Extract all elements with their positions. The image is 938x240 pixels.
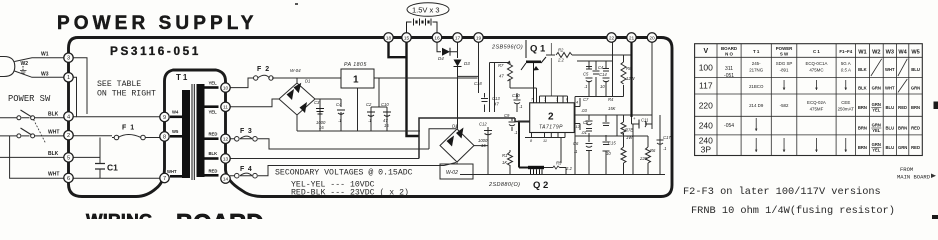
svg-text:C18: C18	[474, 81, 482, 86]
svg-text:16: 16	[319, 125, 324, 130]
svg-text:5G A: 5G A	[841, 61, 851, 66]
svg-text:TA7179P: TA7179P	[539, 125, 563, 131]
svg-text:BLU: BLU	[911, 67, 920, 72]
svg-text:475MC: 475MC	[809, 68, 823, 73]
svg-text:1.5V x 3: 1.5V x 3	[412, 6, 440, 15]
svg-text:YEL: YEL	[209, 81, 218, 86]
svg-text:.1: .1	[338, 118, 342, 123]
svg-text:13: 13	[223, 156, 229, 162]
svg-text:BRN: BRN	[858, 125, 867, 130]
svg-text:R6: R6	[650, 148, 656, 153]
svg-text:GRN: GRN	[872, 123, 881, 128]
svg-text:-891: -891	[780, 68, 789, 73]
svg-text:16: 16	[481, 143, 486, 148]
svg-text:YEL: YEL	[872, 148, 881, 153]
svg-text:C17: C17	[663, 135, 671, 140]
svg-text:ECQ-02A: ECQ-02A	[807, 100, 826, 105]
svg-text:SECONDARY VOLTAGES @ 0.15ADC: SECONDARY VOLTAGES @ 0.15ADC	[275, 168, 413, 178]
svg-text:-051: -051	[724, 73, 734, 79]
svg-text:5: 5	[67, 155, 70, 161]
svg-text:C 1: C 1	[813, 49, 820, 54]
svg-text:Q 1: Q 1	[530, 44, 546, 55]
svg-text:16: 16	[384, 123, 389, 128]
svg-text:WHT: WHT	[167, 169, 177, 174]
svg-text:7: 7	[163, 176, 166, 182]
svg-text:RED: RED	[911, 125, 920, 130]
svg-text:.1: .1	[574, 149, 578, 154]
svg-text:6: 6	[67, 176, 70, 182]
svg-text:BLK: BLK	[858, 67, 867, 72]
svg-text:C10: C10	[381, 102, 389, 107]
svg-text:W2: W2	[872, 50, 880, 56]
svg-text:FROM: FROM	[900, 166, 913, 173]
svg-text:10: 10	[606, 151, 611, 156]
svg-text:PA 1805: PA 1805	[344, 62, 367, 68]
svg-text:W5: W5	[911, 50, 919, 56]
svg-text:2.2: 2.2	[565, 166, 572, 171]
svg-text:3: 3	[556, 98, 559, 102]
svg-text:W-02: W-02	[446, 170, 458, 176]
svg-text:1: 1	[353, 75, 359, 86]
svg-text:F 2: F 2	[257, 66, 270, 73]
svg-text:R4: R4	[608, 97, 614, 102]
svg-text:SDG SP: SDG SP	[776, 61, 793, 66]
svg-text:2: 2	[548, 112, 554, 123]
svg-text:BLU: BLU	[885, 145, 894, 150]
svg-text:BRN: BRN	[858, 105, 867, 110]
svg-text:1K: 1K	[502, 160, 507, 165]
svg-text:19: 19	[476, 35, 482, 41]
svg-text:3P: 3P	[701, 145, 712, 155]
svg-text:POWER SUPPLY: POWER SUPPLY	[57, 13, 258, 34]
svg-text:W3: W3	[886, 50, 894, 56]
svg-text:C15: C15	[608, 141, 616, 146]
svg-text:R7B: R7B	[625, 128, 633, 133]
svg-text:47: 47	[494, 102, 499, 107]
svg-text:22: 22	[609, 35, 615, 41]
svg-text:20: 20	[649, 35, 655, 41]
svg-text:GRN: GRN	[872, 102, 881, 107]
svg-text:217NG: 217NG	[749, 68, 763, 73]
svg-text:F2-F3 on later 100/117V versio: F2-F3 on later 100/117V versions	[683, 186, 881, 198]
svg-text:N O: N O	[725, 52, 733, 57]
svg-text:W2: W2	[21, 61, 29, 67]
svg-text:BRN: BRN	[898, 125, 907, 130]
svg-text:6: 6	[566, 98, 569, 102]
svg-text:11: 11	[223, 105, 228, 111]
svg-text:ON THE RIGHT: ON THE RIGHT	[97, 90, 156, 99]
svg-text:R2: R2	[558, 48, 564, 53]
svg-text:BLK: BLK	[48, 151, 59, 157]
svg-text:W4: W4	[898, 50, 907, 56]
svg-text:.03: .03	[581, 108, 587, 113]
svg-text:16: 16	[434, 35, 440, 41]
svg-text:GRN: GRN	[911, 85, 920, 90]
svg-text:R5: R5	[556, 161, 562, 166]
svg-text:2.2: 2.2	[557, 58, 564, 63]
svg-text:214 D9: 214 D9	[749, 103, 764, 108]
svg-text:BLU: BLU	[885, 105, 894, 110]
svg-text:YEL: YEL	[209, 110, 218, 115]
svg-text:BLK: BLK	[48, 111, 59, 117]
svg-text:.1: .1	[584, 84, 588, 89]
svg-text:BRN: BRN	[911, 105, 920, 110]
svg-text:-582: -582	[780, 103, 789, 108]
svg-text:GRN: GRN	[898, 145, 907, 150]
svg-text:245-: 245-	[752, 61, 761, 66]
svg-text:2: 2	[67, 133, 70, 139]
svg-text:2SB596(O): 2SB596(O)	[491, 45, 523, 51]
svg-text:F1~F4: F1~F4	[839, 49, 852, 54]
svg-text:WHT: WHT	[48, 171, 59, 177]
svg-text:475MF: 475MF	[810, 107, 824, 112]
svg-text:.01: .01	[581, 130, 587, 135]
svg-text:100: 100	[699, 63, 713, 73]
svg-text:SEE TABLE: SEE TABLE	[97, 80, 141, 89]
svg-text:1: 1	[67, 75, 70, 81]
svg-text:21: 21	[629, 35, 635, 41]
svg-text:C14: C14	[599, 72, 607, 77]
svg-text:RED: RED	[209, 132, 218, 137]
svg-text:BLU: BLU	[885, 125, 894, 130]
svg-text:3: 3	[67, 56, 70, 62]
svg-text:W4: W4	[172, 110, 179, 115]
svg-text:8: 8	[530, 139, 533, 143]
svg-text:4: 4	[576, 101, 578, 105]
svg-text:.1: .1	[663, 146, 667, 151]
svg-text:WHT: WHT	[48, 130, 59, 136]
svg-text:D4: D4	[438, 56, 444, 61]
svg-text:BLK: BLK	[858, 85, 867, 90]
svg-text:CEE: CEE	[841, 100, 850, 105]
svg-text:W3: W3	[41, 71, 49, 77]
svg-text:WHT: WHT	[885, 67, 895, 72]
svg-text:.1: .1	[519, 104, 523, 109]
svg-text:YEL: YEL	[872, 108, 881, 113]
svg-text:R7: R7	[498, 63, 504, 68]
svg-text:10: 10	[223, 86, 229, 92]
svg-text:W1: W1	[41, 52, 49, 58]
svg-text:W-04: W-04	[290, 68, 301, 73]
svg-text:.1: .1	[368, 118, 372, 123]
svg-text:F 3: F 3	[240, 128, 253, 135]
svg-text:D2: D2	[452, 124, 458, 129]
svg-text:18: 18	[386, 35, 392, 41]
svg-text:F 1: F 1	[122, 125, 135, 132]
svg-text:S W: S W	[780, 52, 789, 57]
svg-text:T1: T1	[176, 73, 189, 82]
svg-text:C11: C11	[641, 118, 648, 123]
svg-text:POWER: POWER	[776, 46, 793, 51]
svg-text:1: 1	[544, 98, 546, 102]
svg-text:-054: -054	[724, 123, 734, 129]
svg-text:R1: R1	[502, 153, 507, 158]
svg-text:9: 9	[163, 115, 166, 121]
svg-text:10: 10	[600, 84, 605, 89]
svg-text:GRN: GRN	[872, 85, 881, 90]
svg-text:21BCO: 21BCO	[749, 84, 764, 89]
svg-text:C2: C2	[366, 102, 372, 107]
svg-text:C1: C1	[107, 163, 118, 173]
svg-text:C4: C4	[336, 102, 342, 107]
svg-text:ECQ-0C1A: ECQ-0C1A	[805, 61, 827, 66]
svg-text:15: 15	[404, 35, 410, 41]
svg-text:T 1: T 1	[753, 49, 760, 54]
svg-text:F 4: F 4	[240, 166, 253, 173]
svg-text:C5: C5	[583, 72, 589, 77]
svg-text:8: 8	[163, 134, 166, 140]
svg-text:0.5 A: 0.5 A	[841, 68, 851, 73]
svg-text:.1: .1	[514, 130, 518, 135]
svg-text:W5: W5	[172, 129, 179, 134]
svg-text:C3: C3	[314, 100, 320, 105]
svg-text:220: 220	[699, 101, 713, 111]
svg-text:YEL: YEL	[872, 128, 881, 133]
svg-text:250mAT: 250mAT	[838, 107, 855, 112]
svg-text:WHT: WHT	[885, 85, 895, 90]
svg-text:WIRING: WIRING	[86, 210, 153, 219]
svg-text:BOARD: BOARD	[721, 46, 737, 51]
svg-text:311: 311	[725, 66, 733, 72]
svg-text:D1: D1	[305, 79, 310, 84]
svg-text:1W: 1W	[626, 135, 633, 140]
svg-text:15K: 15K	[608, 106, 616, 111]
svg-text:47: 47	[499, 74, 504, 79]
svg-text:BRN: BRN	[858, 145, 867, 150]
svg-text:PS3116-051: PS3116-051	[110, 44, 201, 58]
svg-text:POWER SW: POWER SW	[8, 94, 51, 104]
svg-text:C10: C10	[512, 93, 520, 98]
svg-text:11: 11	[543, 139, 547, 143]
svg-text:RED: RED	[898, 105, 907, 110]
svg-text:RED: RED	[911, 145, 920, 150]
svg-text:D3: D3	[464, 61, 470, 66]
svg-text:C12: C12	[479, 122, 487, 127]
svg-text:RED-BLK --- 23VDC ( x 2): RED-BLK --- 23VDC ( x 2)	[291, 188, 409, 198]
svg-text:W1: W1	[858, 50, 866, 56]
svg-text:C13: C13	[492, 96, 500, 101]
svg-text:17: 17	[455, 35, 461, 41]
svg-text:RED: RED	[209, 169, 218, 174]
svg-text:C6: C6	[573, 141, 579, 146]
svg-text:12: 12	[223, 137, 229, 143]
svg-text:C7: C7	[583, 97, 589, 102]
svg-text:FRNB 10 ohm 1/4W(fusing resist: FRNB 10 ohm 1/4W(fusing resistor)	[691, 205, 895, 217]
svg-text:C4: C4	[598, 65, 604, 70]
svg-text:4: 4	[67, 114, 70, 120]
svg-text:BOARD: BOARD	[176, 209, 264, 219]
svg-text:V: V	[703, 48, 708, 55]
svg-text:+: +	[633, 116, 636, 121]
svg-text:Q 2: Q 2	[533, 180, 548, 191]
svg-text:BLK: BLK	[209, 151, 218, 156]
svg-text:GRN: GRN	[872, 142, 881, 147]
svg-text:2SD880(O): 2SD880(O)	[488, 182, 520, 188]
svg-text:MAIN BOARD: MAIN BOARD	[897, 174, 931, 181]
svg-text:14: 14	[223, 177, 229, 183]
svg-text:240: 240	[699, 121, 713, 131]
svg-text:117: 117	[699, 81, 713, 91]
